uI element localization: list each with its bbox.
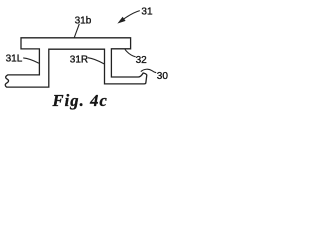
leader line 31R	[88, 58, 104, 64]
svg-text:31: 31	[141, 7, 153, 18]
rail profile outline (part 31 with top flange 31b, legs 31L/31R, base feet 32/30)	[5, 38, 147, 87]
svg-text:32: 32	[136, 55, 148, 66]
svg-text:Fig. 4c: Fig. 4c	[52, 91, 108, 110]
leader line 30	[141, 69, 156, 72]
leader arrow 31	[122, 11, 140, 21]
svg-text:31R: 31R	[70, 55, 88, 66]
leader line 32	[125, 49, 136, 57]
svg-text:30: 30	[157, 71, 169, 82]
leader line 31L	[23, 58, 39, 63]
leader line 31b	[74, 24, 79, 38]
svg-text:31L: 31L	[6, 54, 23, 65]
svg-text:31b: 31b	[75, 15, 92, 26]
